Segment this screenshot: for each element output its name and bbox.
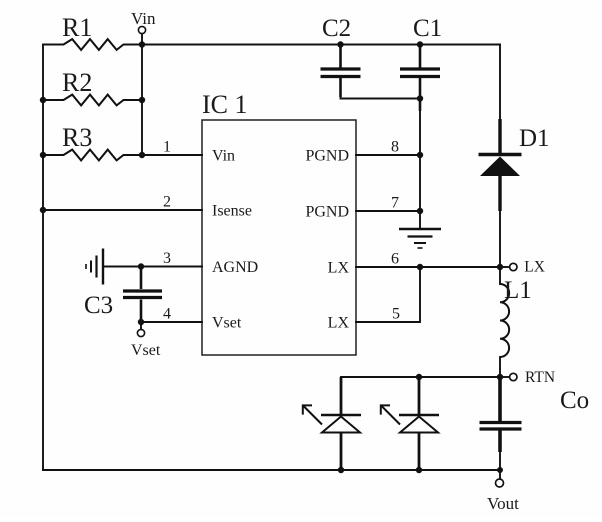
svg-text:Vout: Vout [487, 494, 519, 513]
node Vout (open terminal) [496, 479, 504, 487]
svg-text:PGND: PGND [305, 204, 349, 221]
wire D1 to L1 segment [499, 211, 501, 284]
svg-text:1: 1 [163, 139, 171, 156]
wire LX node stub [500, 266, 510, 268]
wire RTN horizontal to LEDs [341, 376, 500, 378]
resistor R2 [43, 95, 142, 106]
wire pin 7 [356, 210, 420, 212]
svg-text:AGND: AGND [212, 259, 258, 276]
op-amp/IC U1 box IC1 [163, 90, 400, 355]
node Vset (open terminal) [137, 329, 144, 336]
wire C1 bottom lead down to ground [419, 110, 421, 228]
node Vin (open terminal) [138, 26, 145, 33]
inductor L1 [500, 284, 509, 357]
wire L1 to RTN segment [499, 357, 501, 377]
wire pin 5 with riser to pin 6 [356, 267, 420, 322]
svg-text:R2: R2 [62, 68, 92, 97]
wire left vertical bus [42, 45, 44, 471]
svg-text:8: 8 [391, 139, 399, 156]
resistor R1 [43, 39, 142, 50]
svg-text:R3: R3 [62, 123, 92, 152]
svg-text:Vin: Vin [212, 148, 235, 165]
svg-text:IC 1: IC 1 [202, 90, 248, 119]
svg-text:Co: Co [560, 387, 589, 414]
svg-text:4: 4 [163, 306, 171, 323]
wire pin 8 [356, 154, 420, 156]
wire top horizontal [142, 44, 500, 46]
node RTN (open terminal) [510, 373, 517, 380]
wire Vout stub [499, 470, 501, 479]
capacitor Co [480, 377, 522, 452]
wire Vset stub [140, 322, 142, 330]
svg-text:R1: R1 [62, 13, 92, 42]
wire pin 2 [43, 209, 202, 211]
wire pin 1 [142, 154, 202, 156]
resistor R3 [43, 150, 142, 161]
svg-text:Vset: Vset [212, 315, 242, 332]
diode D1 [479, 119, 522, 211]
svg-text:LX: LX [328, 260, 350, 277]
svg-text:C2: C2 [322, 15, 351, 42]
wire pin 3 (AGND to IC) [103, 266, 202, 268]
LED D3 (right) [381, 377, 439, 470]
capacitor C3 [123, 267, 162, 323]
svg-text:Vin: Vin [131, 9, 156, 28]
LED D2 (left) [303, 377, 361, 470]
svg-text:Vset: Vset [131, 342, 161, 359]
svg-text:PGND: PGND [305, 148, 349, 165]
svg-text:7: 7 [391, 195, 399, 212]
node LX (open terminal) [510, 263, 517, 270]
svg-text:2: 2 [163, 194, 171, 211]
wire bottom horizontal [43, 469, 500, 471]
svg-text:C3: C3 [84, 292, 113, 319]
wire mid vertical (Vin node down to pin1 row) [141, 34, 143, 156]
wire pin 4 [141, 321, 202, 323]
wire right vertical (top wire down to D1) [499, 45, 501, 120]
ground (earth) below pin 7 [399, 229, 441, 248]
svg-text:RTN: RTN [525, 369, 555, 386]
svg-text:LX: LX [328, 315, 350, 332]
svg-text:C1: C1 [413, 15, 442, 42]
svg-text:D1: D1 [519, 125, 550, 152]
ground (rotated, AGND) [86, 249, 103, 285]
LED arrow right [382, 406, 401, 425]
wire Co bottom to output [499, 452, 501, 470]
svg-text:3: 3 [163, 250, 171, 267]
svg-text:LX: LX [524, 259, 545, 276]
wire pin 6 [356, 266, 500, 268]
svg-text:Isense: Isense [212, 203, 252, 220]
wire C2 bottom lead to C1 line [341, 96, 421, 99]
svg-text:L1: L1 [504, 277, 532, 304]
capacitor C2 [321, 45, 361, 98]
capacitor C1 [400, 45, 440, 112]
svg-text:5: 5 [392, 306, 400, 323]
wire RTN node stub [500, 376, 510, 378]
LED arrow left [304, 406, 323, 425]
svg-text:6: 6 [391, 251, 399, 268]
